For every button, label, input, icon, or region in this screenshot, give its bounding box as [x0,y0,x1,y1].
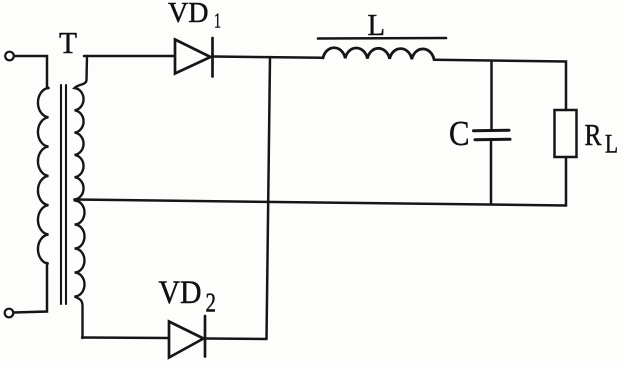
svg-text:L: L [368,7,386,42]
wire top from secondary to VD1 anode [84,55,175,58]
diode VD2 [169,322,204,358]
terminal top-left [5,52,14,61]
wire resistor bottom lead [565,157,568,206]
node junction vertical wire [267,57,271,339]
svg-text:T: T [59,25,77,60]
inductor L [323,48,434,60]
svg-text:VD: VD [159,275,202,311]
wire VD1 cathode to inductor [214,57,324,58]
resistor RL [555,110,577,157]
transformer core [60,85,62,304]
capacitor C top lead [490,62,493,129]
capacitor C bottom lead [490,141,493,204]
label L overline [318,37,446,40]
wire bottom from secondary lead to VD2 anode [82,336,169,339]
diode VD1 [175,40,211,74]
svg-text:R: R [585,117,602,152]
transformer T primary winding [38,88,49,264]
wire VD2 cathode to junction [206,337,267,340]
transformer T secondary winding lower [75,201,85,339]
terminal bottom-left [5,309,14,318]
wire primary top lead [14,56,47,88]
svg-text:2: 2 [206,288,217,318]
wire inductor to top-right corner and down [434,60,566,110]
capacitor C [474,129,510,133]
svg-text:VD: VD [168,0,209,29]
wire primary bottom lead [14,263,48,313]
transformer T secondary winding upper [75,56,88,200]
wire center-tap line [75,200,567,206]
svg-text:L: L [605,129,618,158]
svg-text:1: 1 [214,9,221,33]
svg-text:C: C [449,114,470,153]
